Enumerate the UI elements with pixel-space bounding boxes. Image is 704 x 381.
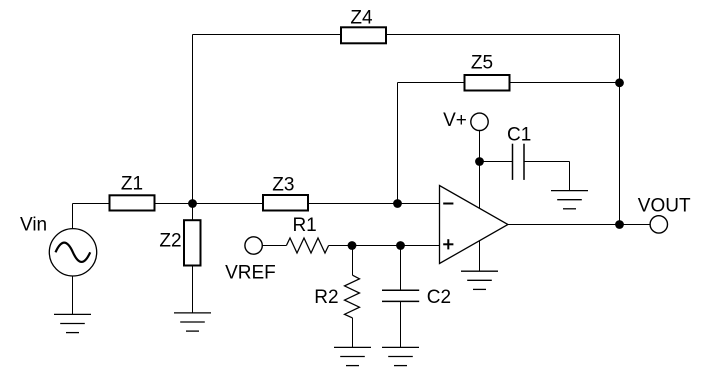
wire left vertical from Z4 to input node bbox=[192, 35, 194, 204]
node junction output bbox=[615, 220, 624, 229]
svg-text:Z5: Z5 bbox=[471, 53, 493, 74]
terminal VOUT bbox=[638, 195, 691, 233]
ground under C2 bbox=[382, 347, 419, 365]
wire Z5 feedback right segment bbox=[510, 82, 620, 84]
wire R1 to op-amp non-inverting input bbox=[329, 245, 440, 247]
wire Z5 feedback left segment bbox=[398, 82, 466, 84]
svg-text:Z4: Z4 bbox=[350, 7, 373, 28]
wire top feedback Z4 right segment bbox=[386, 34, 620, 36]
svg-text:VREF: VREF bbox=[225, 262, 276, 283]
resistor Z2 bbox=[159, 204, 200, 313]
wire Z3 to op-amp inverting input bbox=[309, 203, 440, 205]
svg-text:Z3: Z3 bbox=[272, 175, 294, 196]
svg-text:Vin: Vin bbox=[20, 215, 47, 236]
terminal VREF bbox=[225, 237, 276, 284]
wire V+ to op-amp power bbox=[479, 131, 481, 209]
wire VREF to R1 bbox=[262, 245, 286, 247]
node junction C2 top bbox=[396, 241, 405, 250]
node junction R2 top bbox=[348, 241, 357, 250]
capacitor C2 bbox=[382, 246, 451, 348]
resistor R1 bbox=[286, 215, 328, 253]
wire top feedback Z4 left segment bbox=[193, 34, 342, 36]
resistor Z3 bbox=[263, 175, 308, 211]
svg-text:R2: R2 bbox=[314, 287, 338, 308]
wire op-amp negative supply to ground bbox=[479, 241, 481, 272]
ground under Vin bbox=[54, 314, 91, 332]
wire Z1 to input node bbox=[156, 203, 264, 205]
op-amp U1 bbox=[440, 186, 509, 264]
wire Vin to Z1 bbox=[73, 203, 110, 205]
resistor R2 bbox=[314, 246, 359, 348]
wire right vertical from Z4 to output node bbox=[619, 35, 621, 225]
node junction input summing node bbox=[188, 199, 197, 208]
node junction V+ supply bbox=[475, 157, 484, 166]
svg-text:R1: R1 bbox=[292, 215, 316, 236]
resistor Z4 bbox=[341, 7, 386, 43]
node junction inverting input bbox=[393, 199, 402, 208]
ground under op-amp bbox=[461, 271, 498, 289]
svg-text:VOUT: VOUT bbox=[638, 195, 691, 216]
terminal V+ bbox=[443, 110, 488, 131]
svg-text:C2: C2 bbox=[427, 287, 451, 308]
svg-text:V+: V+ bbox=[443, 110, 467, 131]
ground under Z2 bbox=[174, 313, 211, 331]
svg-text:Z2: Z2 bbox=[159, 231, 181, 252]
wire op-amp output to VOUT bbox=[508, 224, 650, 226]
svg-text:Z1: Z1 bbox=[121, 173, 143, 194]
ground under R2 bbox=[334, 347, 371, 365]
wire vertical Z5 to inverting node bbox=[397, 83, 399, 204]
resistor Z1 bbox=[110, 173, 155, 210]
resistor Z5 bbox=[465, 53, 510, 91]
capacitor C1 bbox=[480, 125, 570, 191]
node junction Z5 wire and right vertical bbox=[615, 78, 624, 87]
svg-text:C1: C1 bbox=[507, 125, 531, 146]
ground under C1 bbox=[551, 191, 588, 209]
source Vin bbox=[20, 204, 97, 315]
